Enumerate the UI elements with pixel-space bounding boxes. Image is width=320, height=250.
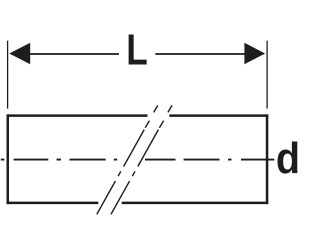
svg-text:L: L [126, 26, 148, 75]
svg-text:d: d [276, 133, 300, 182]
